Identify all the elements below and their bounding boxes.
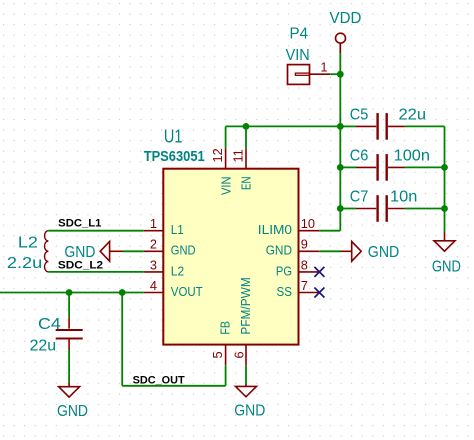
pin 3 L2 — [144, 271, 164, 273]
svg-text:1: 1 — [150, 216, 157, 231]
IC U1 TPS63051 — [144, 127, 299, 345]
svg-text:6: 6 — [232, 351, 247, 358]
pin 8 PG — [299, 271, 320, 273]
svg-text:VIN: VIN — [286, 47, 310, 64]
wire ILIM0 horizontal — [319, 230, 340, 232]
svg-text:U1: U1 — [164, 127, 183, 147]
svg-text:L2: L2 — [171, 263, 184, 278]
pin 6 PFM/PWM (bottom) — [245, 345, 247, 366]
svg-text:GND: GND — [266, 243, 292, 258]
svg-text:GND: GND — [432, 258, 461, 275]
pin 9 GND — [299, 250, 320, 252]
svg-text:SDC_L1: SDC_L1 — [58, 217, 101, 229]
ground arrow pin 2 — [64, 242, 123, 262]
wire VOUT row — [0, 292, 144, 294]
wire main vertical VDD rail — [339, 74, 341, 208]
wire pin 9 to GND arrow — [319, 250, 340, 252]
capacitor C6 — [340, 147, 444, 180]
svg-text:2: 2 — [150, 237, 157, 252]
ground right column — [432, 233, 461, 276]
wire C4 to ground — [68, 350, 70, 383]
junction C4 — [66, 289, 73, 296]
connector P4 — [286, 26, 310, 85]
power symbol VDD — [330, 10, 362, 53]
svg-text:C7: C7 — [350, 188, 369, 205]
wire pin12 vertical — [225, 126, 227, 148]
svg-text:9: 9 — [301, 237, 308, 252]
ground under C4 — [57, 383, 88, 421]
junction C7 rail — [337, 205, 344, 212]
capacitor C4 — [30, 293, 83, 355]
wire P4 pin to junction — [330, 73, 340, 75]
no-connect X pin 8 — [314, 267, 324, 277]
svg-text:GND: GND — [368, 244, 400, 261]
pin 12 VIN (top) — [225, 148, 227, 168]
svg-text:VIN: VIN — [219, 177, 234, 196]
svg-text:GND: GND — [57, 403, 88, 420]
svg-text:C5: C5 — [350, 106, 369, 123]
capacitor C7 — [340, 188, 444, 221]
svg-text:L2: L2 — [18, 235, 38, 252]
svg-text:2.2u: 2.2u — [7, 255, 42, 272]
pin 7 SS — [299, 292, 320, 294]
wire pin 2 to GND arrow — [123, 250, 144, 252]
ground under pin 6 — [234, 384, 265, 420]
svg-text:8: 8 — [301, 257, 308, 272]
svg-text:PG: PG — [276, 263, 292, 278]
svg-text:C6: C6 — [350, 147, 369, 164]
svg-text:4: 4 — [150, 278, 157, 293]
inductor L2 — [7, 231, 49, 273]
svg-text:10n: 10n — [390, 188, 417, 205]
wire top bus to VIN/EN pins — [226, 125, 341, 127]
capacitor C5 — [340, 106, 444, 139]
svg-text:12: 12 — [210, 148, 225, 162]
wire VDD stem to P4 junction — [339, 53, 341, 74]
wire pin 6 to ground — [245, 365, 247, 384]
wire SDC_OUT horizontal — [122, 385, 225, 387]
pin 2 GND — [144, 250, 164, 252]
wire rail down to ILIM0 row — [339, 209, 341, 231]
pin 5 FB (bottom) — [225, 345, 227, 366]
svg-text:10: 10 — [301, 216, 315, 231]
junction P4/VDD — [337, 71, 344, 78]
svg-text:22u: 22u — [399, 106, 427, 123]
svg-text:SS: SS — [277, 284, 293, 299]
svg-text:TPS63051: TPS63051 — [144, 148, 205, 165]
wire SDC_L1 — [49, 230, 144, 232]
svg-text:VDD: VDD — [330, 10, 362, 27]
svg-text:22u: 22u — [30, 337, 56, 354]
pin 10 ILIM0 — [299, 230, 320, 232]
svg-text:P4: P4 — [290, 26, 309, 43]
svg-text:PFM/PWM: PFM/PWM — [238, 277, 253, 334]
ground arrow pin 9 — [341, 242, 400, 262]
svg-text:C4: C4 — [38, 316, 61, 333]
svg-text:5: 5 — [210, 351, 225, 358]
junction rail/bus — [337, 123, 344, 130]
wire pin11 vertical — [245, 126, 247, 148]
svg-text:GND: GND — [234, 403, 265, 420]
wire SDC_L2 — [49, 271, 144, 273]
svg-text:GND: GND — [171, 243, 196, 258]
svg-text:SDC_L2: SDC_L2 — [58, 259, 103, 271]
svg-text:11: 11 — [230, 149, 245, 162]
pin 11 EN (top) — [245, 148, 247, 168]
svg-text:SDC_OUT: SDC_OUT — [133, 374, 185, 386]
junction pin11/bus — [243, 123, 250, 130]
svg-text:100n: 100n — [394, 147, 430, 164]
junction C6 rail — [337, 164, 344, 171]
svg-text:1: 1 — [320, 60, 327, 75]
pin 1 of P4 — [309, 73, 330, 75]
junction SDC_OUT — [119, 289, 126, 296]
pin 4 VOUT — [144, 292, 164, 294]
svg-text:3: 3 — [150, 257, 157, 272]
wire right vertical — [444, 126, 446, 232]
svg-text:VOUT: VOUT — [171, 284, 203, 299]
junction C6 right — [441, 164, 448, 171]
junction C7 right — [441, 205, 448, 212]
pin 1 L1 — [144, 230, 164, 232]
no-connect X pin 7 — [314, 288, 324, 298]
wire up to FB pin — [225, 365, 227, 386]
wire SDC_OUT vertical — [121, 293, 123, 386]
svg-text:EN: EN — [239, 177, 254, 191]
svg-text:7: 7 — [301, 278, 308, 293]
svg-text:ILIM0: ILIM0 — [258, 222, 292, 237]
svg-text:FB: FB — [218, 321, 233, 335]
svg-text:L1: L1 — [171, 222, 184, 237]
